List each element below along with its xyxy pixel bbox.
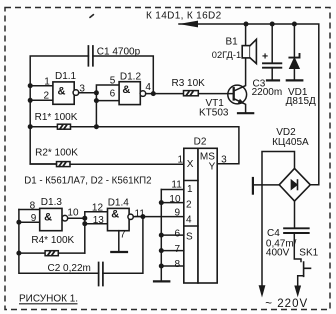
svg-text:5: 5 [110, 76, 116, 87]
resistor R2 [57, 162, 71, 167]
ground pin7 [111, 251, 127, 253]
svg-text:6: 6 [110, 89, 116, 100]
node K 14D1 K 16D2 arrow [179, 21, 198, 28]
ground bus [154, 280, 169, 282]
svg-text:S: S [186, 231, 193, 242]
wire D1.1 pin2 stub [30, 99, 53, 101]
wire C4 to SK1 [294, 233, 301, 262]
svg-text:B1: B1 [226, 37, 239, 48]
junction D1.3 out [82, 216, 87, 221]
svg-text:7: 7 [175, 244, 181, 255]
wire D1.4 input tie [85, 212, 108, 253]
multiplexer D2 [184, 148, 198, 283]
svg-text:4: 4 [186, 215, 192, 226]
wire D2 ground bus [160, 190, 162, 282]
wire speaker riser [245, 24, 247, 46]
ground C3 [267, 79, 279, 81]
svg-text:R3 10K: R3 10K [172, 78, 206, 89]
caption underline [19, 303, 78, 305]
wire D2 pin10 stub [161, 202, 184, 204]
svg-text:D1.1: D1.1 [55, 71, 77, 82]
wire D1.3 output [68, 217, 85, 219]
svg-text:R1* 100K: R1* 100K [35, 112, 78, 123]
junction rail-R4 [16, 251, 21, 256]
svg-text:1: 1 [187, 184, 193, 195]
svg-text:Y: Y [209, 162, 216, 173]
svg-text:&: & [122, 84, 130, 96]
junction rail-pin9 D1.3 [16, 220, 21, 225]
junction rail-B1 [244, 22, 249, 27]
wire R2 to D2 pin1 [30, 163, 184, 165]
wire D2 pin11 stub [161, 189, 184, 191]
svg-text:10: 10 [67, 208, 79, 219]
junction D1.4 out C2 [140, 214, 145, 219]
svg-text:D1 - К561ЛА7, D2 - К561КП2: D1 - К561ЛА7, D2 - К561КП2 [24, 176, 151, 187]
svg-text:1: 1 [178, 155, 184, 166]
svg-text:D1.3: D1.3 [41, 197, 63, 208]
junction rail-R1 [28, 124, 33, 129]
svg-text:R2* 100K: R2* 100K [35, 148, 78, 159]
wire D1.1 pin1 stub [30, 85, 53, 87]
junction rail-C3 [270, 22, 275, 27]
resistor R3 [184, 91, 199, 96]
junction rail-VD1 [292, 22, 297, 27]
wire C1 left to rail [30, 56, 88, 164]
svg-text:C1 4700p: C1 4700p [97, 47, 141, 58]
svg-text:X: X [187, 159, 194, 170]
wire D1.3 pin9 stub [19, 221, 40, 223]
resistor R4 hatch [47, 251, 55, 256]
svg-text:8: 8 [30, 200, 36, 211]
svg-text:12: 12 [92, 203, 104, 214]
wire D1.4 pin7 [118, 231, 120, 252]
svg-text:D1.4: D1.4 [108, 198, 130, 209]
C3 plus sign [262, 51, 268, 63]
wire VD2 bottom to C4 [294, 201, 296, 228]
svg-text:&: & [111, 208, 119, 220]
svg-text:4: 4 [145, 82, 151, 93]
svg-text:D2: D2 [194, 137, 207, 148]
resistor R4 [19, 252, 45, 254]
svg-text:02ГД-1: 02ГД-1 [212, 50, 241, 60]
svg-text:1: 1 [44, 77, 50, 88]
wire D2 pin8 stub [161, 265, 184, 267]
svg-text:~ 220V: ~ 220V [265, 298, 308, 310]
zener diode VD1 [289, 54, 299, 58]
svg-text:8: 8 [175, 259, 181, 270]
svg-text:&: & [44, 212, 52, 224]
svg-text:РИСУНОК 1.: РИСУНОК 1. [19, 293, 78, 304]
resistor R1 [30, 126, 57, 128]
capacitor C1 [88, 46, 93, 66]
wire D1.2 output to R3 [146, 93, 184, 95]
node K14D1 K16D2 top rail wire [179, 24, 319, 185]
resistor R2 hatch [59, 162, 67, 167]
svg-text:3: 3 [79, 84, 85, 95]
node ~220V left arrow [259, 285, 266, 297]
junction bus-pin10 [159, 200, 164, 205]
svg-text:13: 13 [93, 215, 105, 226]
svg-text:6: 6 [175, 228, 181, 239]
junction pin6 D1.2 [94, 98, 99, 103]
junction bus-pin7 [159, 248, 164, 253]
junction bus-pin6 [159, 233, 164, 238]
node ~220V right arrow [294, 286, 301, 298]
logic gate D1.4 [108, 208, 130, 230]
svg-text:7: 7 [120, 229, 126, 240]
svg-text:400V: 400V [266, 247, 290, 258]
resistor R1 hatch [60, 125, 68, 130]
scan artifact mark [90, 15, 93, 18]
wire VD2 top hook to mains [262, 152, 295, 286]
wire D1.2 input tie [96, 85, 119, 127]
logic gate D1.3 [40, 208, 62, 230]
capacitor C2 [99, 263, 103, 286]
wire D1.4 output to D2 pin9 [133, 216, 183, 218]
svg-text:D1.2: D1.2 [120, 72, 142, 83]
svg-text:2: 2 [44, 91, 50, 102]
svg-text:2200m: 2200m [252, 87, 283, 98]
wire left rail lower [19, 210, 99, 274]
ground VD2 left [252, 178, 254, 194]
wire C2 right riser [103, 217, 143, 274]
junction rail-pin2 D1.1 [28, 98, 33, 103]
svg-text:SK1: SK1 [299, 248, 318, 259]
svg-text:&: & [58, 85, 66, 97]
ground emitter [238, 112, 253, 114]
wire R1 right / feedback line to D2 pin3 [71, 127, 239, 164]
svg-text:К 14D1, К 16D2: К 14D1, К 16D2 [146, 10, 222, 21]
svg-text:3: 3 [221, 155, 227, 166]
wire C3 riser [271, 24, 273, 63]
wire D2 pin7 stub [161, 250, 184, 252]
svg-text:10: 10 [169, 194, 181, 205]
wire D1.3 pin8 stub [19, 209, 40, 211]
junction bus-pin8 [159, 264, 164, 269]
capacitor C4 [284, 228, 309, 233]
svg-text:C2 0,22m: C2 0,22m [48, 263, 91, 274]
switch SK1 [304, 262, 311, 276]
svg-text:9: 9 [175, 208, 181, 219]
wire D2 pin6 stub [161, 234, 184, 236]
wire VD1 riser [293, 24, 295, 57]
svg-text:Д815Д: Д815Д [286, 96, 316, 107]
capacitor C3 [263, 63, 281, 67]
junction rail-pin1 D1.1 [28, 83, 33, 88]
svg-text:2: 2 [186, 199, 192, 210]
resistor R3 hatch [186, 91, 194, 96]
bridge rectifier VD2 [279, 168, 310, 201]
svg-text:KT503: KT503 [199, 108, 229, 119]
svg-text:9: 9 [31, 213, 37, 224]
junction R1-tie [94, 124, 99, 129]
junction pin13 D1.4 [82, 221, 87, 226]
svg-text:11: 11 [135, 208, 146, 219]
svg-text:+: + [262, 51, 268, 63]
wire R3 to VT1 base [198, 93, 233, 95]
ground VD1 [287, 79, 303, 81]
speaker B1 [242, 46, 250, 58]
wire C1 right riser [93, 56, 153, 94]
svg-text:R4* 100K: R4* 100K [31, 235, 74, 246]
svg-text:КЦ405А: КЦ405А [272, 137, 309, 148]
logic gate D1.1 [53, 82, 74, 104]
wire D1.1 output [79, 92, 97, 94]
svg-text:11: 11 [171, 180, 182, 191]
logic gate D1.2 [119, 82, 140, 105]
transistor VT1 [228, 85, 247, 104]
junction D1.2 out C1 [151, 91, 156, 96]
junction D1.1 out [94, 90, 99, 95]
arrowheads [179, 21, 301, 298]
